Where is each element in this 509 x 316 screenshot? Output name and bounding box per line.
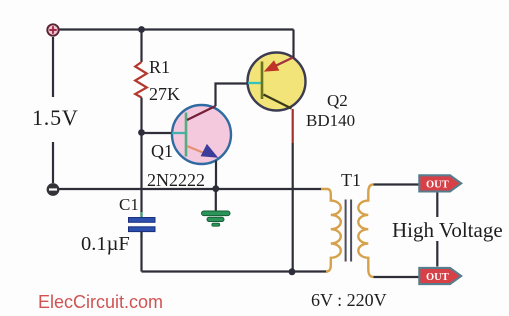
svg-text:R1: R1: [149, 57, 170, 77]
svg-text:C1: C1: [119, 195, 139, 214]
transformer T1 core: [346, 200, 352, 262]
node collector bottom junction: [289, 268, 296, 275]
svg-text:27K: 27K: [149, 84, 180, 104]
resistor R1: [135, 62, 147, 98]
wire battery negative rise: [52, 142, 54, 183]
svg-text:0.1µF: 0.1µF: [81, 233, 130, 255]
wire High Voltage top: [436, 193, 438, 218]
node base junction: [138, 129, 145, 136]
wire negative rail: [59, 188, 322, 190]
wire Q2 collector drop: [292, 143, 294, 272]
wire C1 green lead hint bottom: [140, 232, 142, 238]
transformer T1 secondary: [358, 185, 373, 278]
node top junction: [138, 26, 145, 33]
svg-text:1.5V: 1.5V: [32, 105, 79, 130]
wire Q2 emitter top: [292, 30, 294, 58]
capacitor C1: [129, 218, 156, 232]
wire base node to C1: [140, 133, 142, 218]
wire C1 green lead hint top: [140, 212, 142, 218]
wire ground lead: [215, 189, 217, 212]
transistor Q2: [248, 53, 306, 111]
wire top rail: [59, 28, 294, 30]
wire C1 bottom lead: [140, 232, 142, 272]
ground: [202, 211, 231, 226]
wire secondary bottom to OUT: [374, 276, 419, 278]
svg-text:ElecCircuit.com: ElecCircuit.com: [38, 292, 163, 312]
svg-text:BD140: BD140: [306, 111, 355, 130]
svg-text:6V : 220V: 6V : 220V: [311, 290, 387, 310]
svg-text:Q2: Q2: [327, 91, 348, 110]
svg-text:OUT: OUT: [426, 272, 449, 283]
wire Q1 emitter drop: [215, 161, 217, 189]
wire High Voltage bottom: [436, 241, 438, 267]
svg-text:High Voltage: High Voltage: [392, 218, 503, 242]
battery negative terminal: [47, 184, 59, 196]
transformer T1 primary: [321, 189, 341, 272]
wire R1 top lead: [140, 30, 142, 63]
transistor Q1: [172, 105, 231, 164]
svg-text:T1: T1: [341, 170, 361, 190]
wire R1 bottom lead: [140, 98, 142, 133]
terminal OUT bottom: [419, 268, 461, 284]
svg-text:Q1: Q1: [151, 141, 173, 161]
battery positive terminal: [47, 24, 58, 35]
wire bottom rail: [142, 270, 329, 272]
svg-text:OUT: OUT: [426, 180, 449, 191]
wire Q2 collector red segment: [292, 109, 294, 143]
wire Q1 collector to Q2 base: [216, 84, 249, 107]
wire battery positive drop: [52, 37, 54, 97]
wire Q1 base lead: [142, 132, 173, 134]
svg-text:2N2222: 2N2222: [147, 170, 205, 190]
terminal OUT top: [419, 175, 461, 191]
node emitter ground junction: [212, 185, 219, 192]
wire secondary top to OUT: [374, 183, 419, 185]
